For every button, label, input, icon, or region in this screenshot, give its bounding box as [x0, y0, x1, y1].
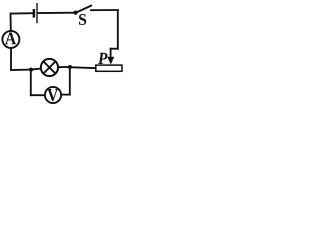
wire slider vertical shaft [110, 49, 112, 56]
label A [5, 32, 16, 44]
wire slider horizontal [111, 48, 118, 50]
switch S pivot dot [74, 11, 78, 15]
lamp X cross [44, 62, 56, 74]
wire parallel branch left vertical [30, 70, 32, 96]
junction dot right [68, 65, 72, 69]
lamp circle [41, 59, 58, 76]
wire lamp right to junction [58, 66, 70, 68]
wire top-left horizontal [11, 12, 34, 14]
label V [47, 89, 58, 101]
wire junction to rheostat [70, 67, 96, 68]
wire bottom-left horizontal to junction [11, 69, 31, 71]
label P [98, 53, 108, 64]
wire bottom to voltmeter [31, 94, 45, 96]
label S [79, 14, 86, 25]
wire parallel branch right vertical [69, 67, 71, 95]
wire left vertical upper [10, 14, 12, 31]
voltmeter V circle [45, 87, 61, 103]
wire voltmeter right [61, 94, 70, 96]
wire left vertical lower [10, 48, 12, 70]
rheostat box [96, 65, 122, 71]
rheostat slider arrowhead [107, 57, 114, 65]
battery thin long bar (positive) [36, 3, 38, 23]
wire switch right stub [91, 9, 118, 11]
wire right vertical [117, 10, 119, 49]
switch S blade [77, 6, 92, 13]
ammeter A circle [2, 31, 19, 48]
wire battery to switch pivot [38, 12, 75, 14]
junction dot left [29, 68, 33, 72]
wire junction to lamp [31, 69, 41, 70]
battery thick short bar (negative) [33, 9, 36, 18]
